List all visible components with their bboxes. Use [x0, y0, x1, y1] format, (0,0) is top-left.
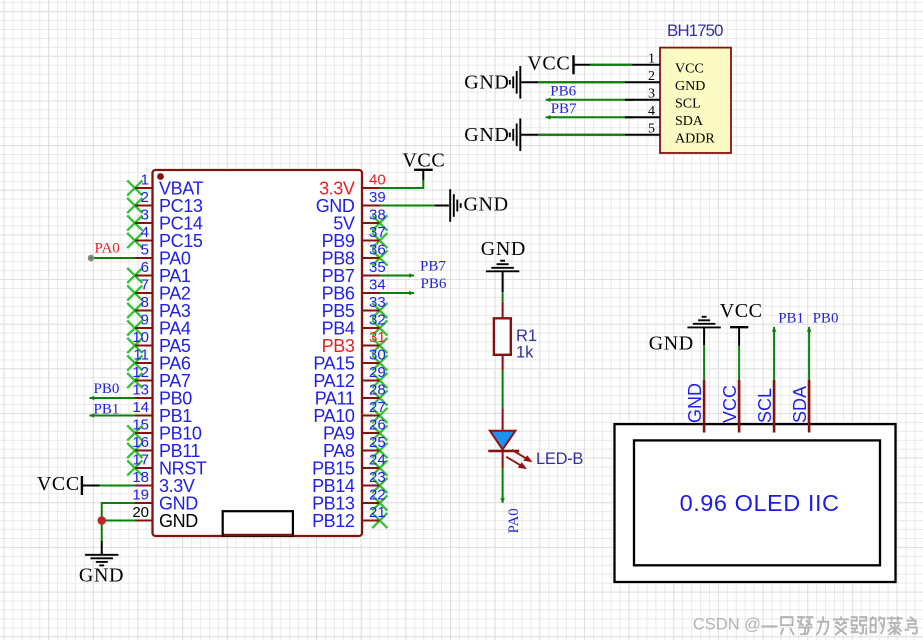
wire GND to BH1750 pin 2: [520, 81, 634, 83]
svg-text:GND: GND: [481, 238, 526, 260]
OLED module body: [615, 424, 896, 582]
svg-text:14: 14: [132, 399, 149, 416]
MCU pin 22 PB13: [312, 487, 386, 514]
MCU pin 3 PC14: [135, 207, 203, 234]
svg-text:GND: GND: [649, 333, 694, 355]
MCU pin 29 PA12: [313, 364, 385, 391]
MCU pin 4 PC15: [135, 224, 203, 251]
wire GND to OLED pin 1: [703, 345, 705, 380]
svg-text:BH1750: BH1750: [667, 21, 723, 40]
svg-text:GND: GND: [464, 124, 509, 146]
svg-text:37: 37: [369, 224, 386, 241]
wire VCC to BH1750 pin 1: [574, 64, 635, 66]
svg-text:PA0: PA0: [95, 241, 120, 257]
MCU pin 38 5V: [333, 207, 385, 234]
MCU U1 body: [153, 170, 363, 536]
svg-text:PB0: PB0: [813, 311, 839, 327]
MCU pin 21 PB12: [312, 504, 386, 531]
svg-text:3: 3: [141, 207, 149, 224]
svg-text:ADDR: ADDR: [675, 131, 715, 146]
svg-text:PB1: PB1: [778, 311, 804, 327]
svg-text:PA0: PA0: [506, 508, 522, 533]
no-connect X pin 6: [127, 268, 142, 283]
ground symbol GND right of pin 39: [435, 189, 509, 222]
no-connect X pin 15: [127, 425, 142, 440]
MCU pin 16 PB11: [132, 434, 200, 461]
BH1750 pin 2 GND: [634, 69, 705, 94]
wire VCC to OLED pin 2: [738, 346, 740, 380]
svg-text:32: 32: [369, 312, 386, 329]
net PB0 wire at pin 13: [89, 396, 135, 401]
svg-text:1: 1: [648, 52, 655, 67]
ground symbol GND at BH1750 pin 5: [464, 119, 520, 152]
OLED pin SCL: [755, 380, 775, 433]
MCU pin 32 PB4: [322, 312, 386, 339]
net label PA0 (red): [95, 241, 120, 257]
no-connect X pin 7: [127, 285, 142, 300]
wire pin35 net PB7: [380, 273, 415, 278]
svg-text:20: 20: [132, 504, 149, 521]
MCU pin 34 PB6: [322, 277, 386, 304]
OLED pin SDA: [790, 380, 810, 433]
svg-text:LED-B: LED-B: [536, 450, 583, 468]
net label PB0: [94, 381, 120, 397]
svg-text:28: 28: [369, 382, 386, 399]
svg-text:40: 40: [369, 172, 386, 189]
label R1 1k: [516, 327, 537, 362]
no-connect X pin 8: [127, 303, 142, 318]
ground symbol GND below MCU: [79, 541, 124, 587]
svg-text:3: 3: [648, 87, 655, 102]
BH1750 pin 3 SCL: [634, 87, 701, 112]
MCU pin 20 GND: [132, 504, 198, 531]
svg-text:29: 29: [369, 364, 386, 381]
LED D? (LED-B): [488, 408, 532, 469]
MCU pin 14 PB1: [132, 399, 192, 426]
MCU pin 13 PB0: [132, 382, 192, 409]
MCU pin 31 PB3: [322, 329, 386, 356]
BH1750 pin 1 VCC: [634, 52, 704, 77]
svg-text:SDA: SDA: [675, 114, 704, 129]
no-connect X pin 30: [372, 355, 387, 370]
MCU pin 27 PA10: [313, 399, 385, 426]
svg-text:10: 10: [132, 329, 149, 346]
svg-text:CSDN @: CSDN @: [693, 616, 761, 634]
net label PB7 (right): [420, 258, 446, 274]
svg-text:SCL: SCL: [675, 96, 701, 111]
MCU pin 7 PA2: [135, 277, 191, 304]
svg-text:8: 8: [141, 294, 149, 311]
svg-text:12: 12: [132, 364, 149, 381]
MCU pin 35 PB7: [322, 259, 386, 286]
no-connect X pin 28: [372, 390, 387, 405]
no-connect X pin 33: [372, 303, 387, 318]
svg-text:VCC: VCC: [527, 53, 570, 75]
MCU pin 26 PA9: [323, 417, 386, 444]
MCU pin 40 3.3V: [319, 172, 386, 199]
no-connect X pin 11: [127, 355, 142, 370]
svg-text:16: 16: [132, 434, 149, 451]
wire net PB1 to OLED SCL: [772, 327, 777, 380]
net label PA0 (vertical): [506, 508, 522, 533]
junction dot: [97, 516, 106, 525]
svg-text:36: 36: [369, 242, 386, 259]
svg-text:26: 26: [369, 417, 386, 434]
MCU pin 24 PB15: [312, 452, 386, 479]
MCU pin 8 PA3: [135, 294, 191, 321]
wire R1 to LED: [502, 370, 504, 408]
svg-text:1k: 1k: [516, 343, 534, 361]
OLED pin VCC: [720, 380, 740, 433]
svg-text:VCC: VCC: [720, 385, 740, 423]
ground symbol GND at OLED: [649, 317, 721, 355]
svg-text:PB6: PB6: [421, 276, 447, 292]
MCU pin 39 GND: [316, 189, 386, 216]
BH1750 pin 5 ADDR: [634, 122, 715, 147]
power flag VCC at pin 18: [37, 473, 100, 495]
svg-text:39: 39: [369, 189, 386, 206]
no-connect X pin 17: [127, 460, 142, 475]
wire pin34 net PB6: [380, 291, 415, 296]
net label PB6 (right): [421, 276, 447, 292]
svg-text:34: 34: [369, 277, 386, 294]
no-connect X pin 38: [372, 215, 387, 230]
svg-text:27: 27: [369, 399, 386, 416]
no-connect X pin 22: [372, 495, 387, 510]
wire net PB0 to OLED SDA: [807, 327, 812, 380]
wire LED to PA0: [500, 468, 505, 503]
svg-text:24: 24: [369, 452, 386, 469]
svg-text:6: 6: [141, 259, 149, 276]
MCU pin 9 PA4: [135, 312, 191, 339]
BH1750 module body: [660, 21, 731, 153]
no-connect X pin 25: [372, 443, 387, 458]
no-connect X pin 2: [127, 198, 142, 213]
wire pin39 to GND: [380, 205, 435, 207]
svg-text:38: 38: [369, 207, 386, 224]
svg-text:31: 31: [369, 329, 386, 346]
wire pin40 to VCC: [380, 180, 424, 188]
no-connect X pin 26: [372, 425, 387, 440]
label LED-B: [536, 450, 583, 468]
svg-text:SCL: SCL: [755, 388, 775, 423]
svg-text:VCC: VCC: [675, 61, 704, 76]
MCU pin 10 PA5: [132, 329, 191, 356]
watermark CSDN: [693, 616, 917, 635]
svg-text:11: 11: [133, 347, 149, 364]
svg-text:GND: GND: [464, 71, 509, 93]
wire GND pins 19-20: [102, 503, 135, 541]
resistor R1: [494, 302, 511, 371]
wire PB6 to BH1750 pin 3: [546, 98, 634, 103]
svg-text:9: 9: [141, 312, 149, 329]
svg-text:PB12: PB12: [312, 511, 355, 531]
svg-text:0.96 OLED IIC: 0.96 OLED IIC: [680, 490, 840, 516]
svg-text:2: 2: [648, 69, 655, 84]
MCU pin 1 VBAT: [135, 172, 203, 199]
wire VCC to pin 18: [100, 485, 136, 487]
MCU pin 17 NRST: [132, 452, 206, 479]
svg-text:19: 19: [132, 487, 149, 504]
MCU pin 11 PA6: [133, 347, 190, 374]
MCU pin 30 PA15: [313, 347, 385, 374]
no-connect X pin 36: [372, 250, 387, 265]
wire GND to BH1750 pin 5: [520, 134, 634, 136]
MCU bottom notch rectangle: [223, 511, 293, 535]
svg-text:7: 7: [141, 277, 149, 294]
svg-text:33: 33: [369, 294, 386, 311]
no-connect X pin 3: [127, 215, 142, 230]
svg-text:30: 30: [369, 347, 386, 364]
MCU pin 2 PC13: [135, 189, 203, 216]
svg-text:VCC: VCC: [402, 149, 445, 171]
svg-text:PB7: PB7: [420, 258, 446, 274]
svg-text:R1: R1: [516, 327, 537, 345]
svg-text:4: 4: [648, 104, 655, 119]
no-connect X pin 29: [372, 373, 387, 388]
no-connect X pin 16: [127, 443, 142, 458]
MCU pin 15 PB10: [132, 417, 202, 444]
power flag VCC at pin 40: [402, 149, 445, 180]
power flag VCC at BH1750 pin 1: [527, 53, 573, 75]
svg-text:17: 17: [132, 452, 149, 469]
no-connect X pin 37: [372, 233, 387, 248]
svg-text:VCC: VCC: [720, 300, 763, 322]
power flag VCC at OLED: [720, 300, 763, 346]
MCU pin 12 PA7: [132, 364, 191, 391]
svg-text:GND: GND: [464, 193, 509, 215]
svg-text:25: 25: [369, 434, 386, 451]
net label PB1: [94, 402, 120, 418]
MCU pin 23 PB14: [312, 469, 386, 496]
svg-text:GND: GND: [675, 79, 705, 94]
svg-text:35: 35: [369, 259, 386, 276]
net label PB6 at BH1750 pin 3: [550, 84, 576, 100]
svg-text:GND: GND: [79, 565, 124, 587]
svg-text:18: 18: [132, 469, 149, 486]
no-connect X pin 32: [372, 320, 387, 335]
wire GND to R1: [502, 292, 504, 302]
no-connect X pin 31: [372, 338, 387, 353]
MCU pin 28 PA11: [315, 382, 386, 409]
svg-text:2: 2: [141, 189, 149, 206]
svg-text:15: 15: [132, 417, 149, 434]
svg-text:PB1: PB1: [94, 402, 120, 418]
svg-text:5: 5: [648, 122, 655, 137]
wire PB7 to BH1750 pin 4: [546, 115, 634, 120]
svg-text:VCC: VCC: [37, 473, 80, 495]
MCU pin 37 PB9: [322, 224, 386, 251]
MCU pin 33 PB5: [322, 294, 386, 321]
no-connect X pin 23: [372, 478, 387, 493]
svg-text:5: 5: [141, 242, 149, 259]
OLED pin GND: [685, 380, 705, 433]
net PB1 wire at pin 14: [89, 413, 135, 418]
no-connect X pin 24: [372, 460, 387, 475]
net PA0 wire at pin 5: [88, 255, 135, 260]
MCU pin 19 GND: [132, 487, 198, 514]
MCU pin 25 PA8: [323, 434, 386, 461]
no-connect X pin 1: [127, 180, 142, 195]
svg-text:13: 13: [132, 382, 149, 399]
MCU pin 18 3.3V: [132, 469, 195, 496]
svg-text:SDA: SDA: [790, 386, 810, 423]
no-connect X pin 27: [372, 408, 387, 423]
no-connect X pin 10: [127, 338, 142, 353]
MCU pin 6 PA1: [135, 259, 191, 286]
net label PB1 (OLED): [778, 311, 804, 327]
svg-text:21: 21: [369, 504, 386, 521]
svg-text:PB0: PB0: [94, 381, 120, 397]
svg-text:23: 23: [369, 469, 386, 486]
BH1750 pin 4 SDA: [634, 104, 704, 129]
no-connect X pin 21: [372, 513, 387, 528]
MCU pin 36 PB8: [322, 242, 386, 269]
ground symbol GND at BH1750 pin 2: [464, 66, 520, 99]
svg-text:PB6: PB6: [550, 84, 576, 100]
svg-text:4: 4: [141, 224, 149, 241]
svg-text:GND: GND: [159, 511, 198, 531]
no-connect X pin 9: [127, 320, 142, 335]
net label PB0 (OLED): [813, 311, 839, 327]
svg-text:22: 22: [369, 487, 386, 504]
svg-text:PB7: PB7: [551, 101, 577, 117]
svg-text:GND: GND: [685, 383, 705, 423]
net label PB7 at BH1750 pin 4: [551, 101, 577, 117]
MCU pin 5 PA0: [135, 242, 191, 269]
no-connect X pin 12: [127, 373, 142, 388]
svg-text:1: 1: [141, 172, 149, 189]
no-connect X pin 4: [127, 233, 142, 248]
ground symbol GND above R1: [481, 238, 526, 292]
